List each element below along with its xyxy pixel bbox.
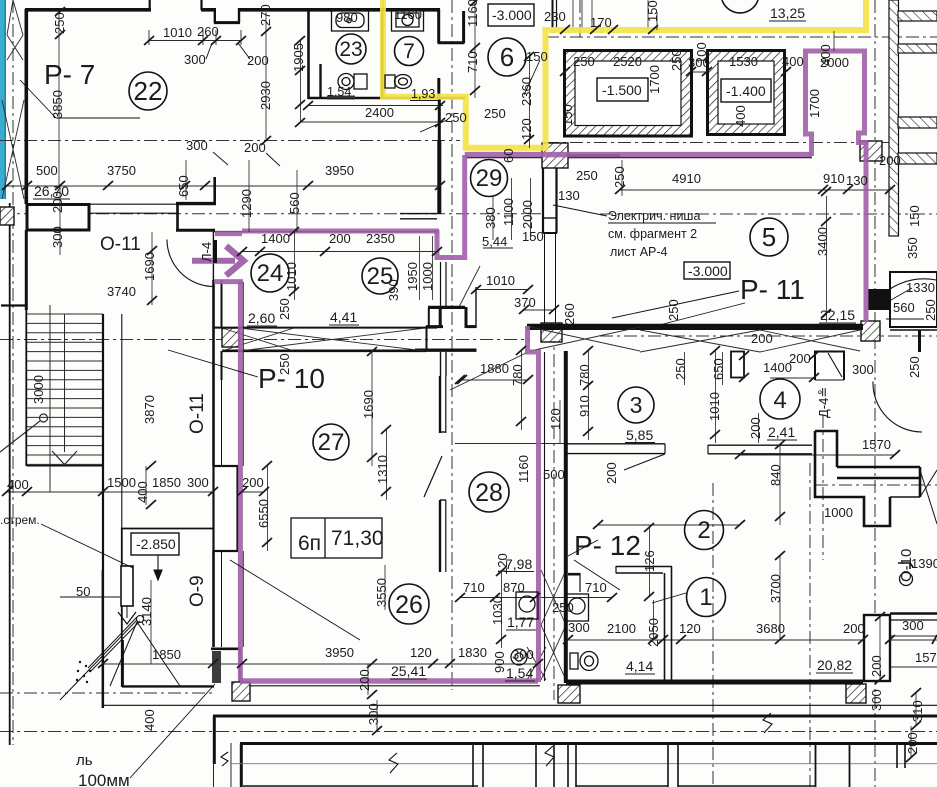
svg-text:300: 300 [902,618,924,633]
svg-text:О-11: О-11 [100,234,141,255]
svg-text:26,70: 26,70 [34,183,69,199]
svg-text:3700: 3700 [768,574,783,603]
svg-text:О-10: О-10 [898,549,915,582]
svg-text:200: 200 [247,53,269,68]
svg-text:25: 25 [367,263,394,290]
svg-text:2000: 2000 [520,200,535,229]
svg-text:1500: 1500 [107,475,136,490]
svg-text:100: 100 [694,42,709,64]
svg-text:250: 250 [673,358,688,380]
svg-text:Электрич. ниша: Электрич. ниша [608,209,700,223]
svg-text:1290: 1290 [239,189,254,218]
svg-text:4910: 4910 [672,171,701,186]
svg-text:2930: 2930 [258,81,273,110]
leader lines [20,43,745,778]
fixtures room 23: bath [332,10,369,32]
svg-text:Р- 10: Р- 10 [258,363,325,394]
fixtures room 7: sink [392,10,424,32]
svg-text:150: 150 [560,104,575,126]
svg-text:Р- 12: Р- 12 [574,530,641,561]
svg-text:300: 300 [50,226,65,248]
svg-text:4,14: 4,14 [626,658,653,674]
svg-text:350: 350 [905,237,920,259]
svg-text:5,44: 5,44 [482,234,507,249]
svg-text:870: 870 [503,580,525,595]
niche walls right of room 29 [466,156,812,681]
svg-text:Р- 7: Р- 7 [44,59,95,90]
svg-text:400: 400 [142,709,157,731]
svg-text:120: 120 [410,645,432,660]
svg-text:150: 150 [522,229,544,244]
svg-text:29: 29 [476,165,503,192]
svg-text:300: 300 [869,689,884,711]
svg-text:840: 840 [768,464,783,486]
svg-text:2520: 2520 [613,54,642,69]
svg-text:310: 310 [910,700,925,722]
door room 3 [624,454,665,470]
dark pier left bottom [212,651,221,683]
svg-text:1330: 1330 [906,280,935,295]
svg-text:200: 200 [905,732,920,754]
svg-text:780: 780 [510,364,525,386]
svg-text:71,30: 71,30 [331,527,384,550]
left lower room (ladder room) walls [103,528,213,708]
svg-text:23: 23 [339,38,362,61]
svg-text:1570: 1570 [862,437,891,452]
svg-text:200: 200 [357,669,372,691]
pit -1.500 [565,51,692,137]
svg-text:2050: 2050 [646,618,661,647]
svg-text:250: 250 [277,298,292,320]
svg-text:400: 400 [135,481,150,503]
svg-text:200: 200 [879,153,901,168]
svg-text:1690: 1690 [361,390,376,419]
svg-text:710: 710 [463,580,485,595]
svg-text:5,85: 5,85 [626,427,653,443]
svg-text:3550: 3550 [374,578,389,607]
svg-text:710: 710 [465,51,480,73]
svg-text:1030: 1030 [490,596,505,625]
room number circles [129,0,800,624]
svg-text:980: 980 [336,10,358,25]
О-11 window pier left (x213-240) [214,351,238,647]
svg-text:1400: 1400 [261,231,290,246]
svg-text:710: 710 [585,580,607,595]
О-11 niche walls near entrance [90,177,540,686]
room 23 left wall [307,10,310,99]
svg-text:1690: 1690 [142,252,157,281]
bottom-right pier white [864,615,890,681]
svg-text:27: 27 [318,429,345,456]
svg-text:-3.000: -3.000 [688,263,728,279]
svg-text:900: 900 [492,651,507,673]
pit -1.400 [708,51,785,135]
svg-text:1: 1 [699,584,712,611]
svg-text:400: 400 [7,477,29,492]
svg-text:7: 7 [403,40,415,63]
svg-text:500: 500 [36,163,58,178]
toilet niche in 23 [319,64,321,97]
svg-text:250: 250 [573,54,595,69]
door arcs [167,240,936,471]
big horizontal [465,152,812,158]
svg-text:1000: 1000 [420,262,435,291]
svg-text:4: 4 [773,387,786,414]
svg-text:560: 560 [287,192,302,214]
wall right of room 7 [437,9,440,44]
svg-text:1830: 1830 [458,645,487,660]
svg-text:1400: 1400 [763,360,792,375]
svg-text:120: 120 [519,118,534,140]
svg-text:170: 170 [590,15,612,30]
door top right room5 [872,279,936,307]
apartment area box 6п 71,30 [291,518,384,558]
svg-text:250: 250 [484,106,506,121]
svg-text:1010: 1010 [707,392,722,421]
door О-10 bottom right [873,382,922,433]
svg-text:200: 200 [789,351,811,366]
svg-text:лист АР-4: лист АР-4 [610,245,668,259]
svg-text:22: 22 [134,76,163,106]
svg-text:6: 6 [500,42,514,72]
svg-text:.стрем.: .стрем. [0,513,40,527]
svg-text:1010: 1010 [284,262,299,291]
svg-text:1,54: 1,54 [327,85,351,99]
corridor center walls x 437-476 [400,140,446,307]
svg-text:1310: 1310 [375,455,390,484]
svg-text:130: 130 [558,188,580,203]
svg-text:910: 910 [823,171,845,186]
svg-text:150: 150 [907,205,922,227]
svg-text:200: 200 [843,621,865,636]
svg-text:Д-4≗: Д-4≗ [816,387,831,418]
svg-text:1000: 1000 [824,505,853,520]
rooms 3/4 partition walls [566,351,844,683]
svg-text:3400: 3400 [815,227,830,256]
toilet room 23 [338,74,367,90]
left pier at О-11 [1,203,122,745]
svg-text:200: 200 [329,231,351,246]
svg-text:6п: 6п [298,532,321,555]
svg-text:120: 120 [679,621,701,636]
mid main wall band y327-352 [213,280,477,380]
svg-text:200: 200 [242,475,264,490]
svg-text:1160: 1160 [465,0,480,27]
svg-text:260: 260 [562,303,577,325]
svg-text:3750: 3750 [107,163,136,178]
window X left of stairs [7,35,23,60]
svg-text:1850: 1850 [152,475,181,490]
bath area bottom fixtures [511,563,913,671]
svg-text:1,54: 1,54 [506,665,533,681]
door 24 entrance [167,240,214,287]
svg-text:500: 500 [543,467,565,482]
svg-text:1700: 1700 [807,89,822,118]
svg-text:3740: 3740 [107,284,136,299]
svg-text:230: 230 [544,9,566,24]
svg-text:2100: 2100 [607,621,636,636]
svg-text:650: 650 [711,358,726,380]
svg-text:400: 400 [733,105,748,127]
wall stubs above top yellow line [553,0,557,28]
wall 27/28 x438-446 [424,376,446,572]
svg-text:25,41: 25,41 [391,663,426,679]
svg-text:400: 400 [818,44,833,66]
svg-text:380: 380 [483,207,498,229]
svg-text:300: 300 [184,52,206,67]
svg-text:250: 250 [445,110,467,125]
svg-text:910: 910 [577,395,592,417]
svg-text:1100: 1100 [501,198,516,226]
svg-text:-1.400: -1.400 [726,83,766,99]
svg-text:2400: 2400 [365,105,394,120]
stair walk-line arrow [0,414,77,465]
svg-text:Л-4: Л-4 [199,242,214,262]
break marks [221,713,772,773]
svg-text:400: 400 [782,54,804,69]
entrance door bottom + left vertical [214,279,243,284]
svg-text:150: 150 [645,0,660,22]
svg-text:560: 560 [893,300,915,315]
ladder symbol diagonals bottom-left [60,616,180,701]
svg-text:1905: 1905 [291,43,306,72]
svg-text:300: 300 [512,647,534,662]
cyan facade stripe left [0,0,5,199]
svg-text:3870: 3870 [142,395,157,424]
black filled block right [868,289,890,310]
svg-text:250: 250 [552,600,574,615]
arrow below -2.850 [154,555,162,580]
svg-text:2350: 2350 [366,231,395,246]
bottom band structure [103,705,937,787]
svg-text:650: 650 [176,175,191,197]
svg-text:1950: 1950 [405,262,420,291]
svg-text:260: 260 [197,24,219,39]
entrance arrow [192,246,244,276]
svg-text:см. фрагмент 2: см. фрагмент 2 [608,227,697,241]
svg-text:120: 120 [548,408,563,430]
toilet room 7 [385,75,412,89]
svg-text:250: 250 [576,168,598,183]
svg-text:3: 3 [630,392,643,418]
svg-text:780: 780 [577,364,592,386]
svg-text:6550: 6550 [256,499,271,528]
svg-text:20,82: 20,82 [817,657,852,673]
svg-text:3140: 3140 [139,597,154,626]
svg-text:3950: 3950 [325,163,354,178]
svg-text:200: 200 [244,140,266,155]
svg-text:300: 300 [187,475,209,490]
svg-text:13,25: 13,25 [770,5,805,21]
svg-text:-1.500: -1.500 [602,82,642,98]
svg-text:126: 126 [642,550,657,572]
left outer wall [24,9,28,204]
svg-text:3000: 3000 [31,375,46,404]
partition 23/7 (under yellow) [381,10,383,98]
svg-text:300: 300 [852,362,874,377]
room 1 / bath walls [568,566,672,681]
svg-text:Р- 11: Р- 11 [740,274,805,305]
svg-text:150: 150 [526,49,548,64]
stairwell treads [27,305,103,492]
svg-text:1850: 1850 [152,647,181,662]
svg-text:3950: 3950 [325,645,354,660]
svg-text:250: 250 [666,299,681,321]
bottom main wall [122,640,863,687]
svg-text:22,15: 22,15 [820,307,855,323]
svg-text:250: 250 [52,12,67,34]
big room labels [44,59,915,607]
svg-text:250: 250 [669,49,684,71]
svg-text:200: 200 [748,417,763,439]
svg-text:1700: 1700 [647,65,662,94]
svg-text:-2.850: -2.850 [136,536,176,552]
svg-text:200: 200 [604,462,619,484]
lintel X crosses [2,0,860,680]
svg-text:24: 24 [257,260,284,287]
svg-text:300: 300 [366,703,381,725]
svg-text:60: 60 [501,149,516,163]
svg-text:4,41: 4,41 [330,309,357,325]
svg-text:130: 130 [846,173,868,188]
svg-text:2,60: 2,60 [248,310,275,326]
svg-text:157: 157 [915,650,937,665]
svg-text:250: 250 [907,356,922,378]
svg-text:ль: ль [76,752,93,769]
hatch section blocks [0,207,14,225]
svg-text:1010: 1010 [163,25,192,40]
underlined area labels [33,5,856,681]
svg-text:370: 370 [514,295,536,310]
svg-text:О-9: О-9 [187,575,208,607]
right main wall y324-331 [527,324,937,352]
svg-text:5: 5 [762,222,776,252]
svg-text:200: 200 [751,331,773,346]
svg-text:2360: 2360 [519,77,534,106]
svg-text:1,77: 1,77 [507,614,534,630]
svg-text:26: 26 [395,591,423,619]
svg-text:1160: 1160 [516,455,531,483]
svg-text:2,41: 2,41 [768,424,795,440]
svg-text:-3.000: -3.000 [492,7,532,23]
svg-text:1,93: 1,93 [411,87,435,101]
svg-text:250: 250 [923,299,937,321]
svg-text:100мм: 100мм [78,771,130,787]
svg-text:28: 28 [475,479,503,507]
svg-text:1880: 1880 [480,361,509,376]
svg-text:250: 250 [612,166,627,188]
bottom wall of 23/7 [308,97,465,100]
svg-text:2: 2 [697,517,710,544]
note text [0,205,716,787]
right edge hatched walls [884,0,937,327]
svg-text:О-11: О-11 [187,393,208,434]
elevator/shaft plus-shaped wall right bottom [815,431,937,526]
svg-text:300: 300 [568,620,590,635]
svg-text:7,98: 7,98 [505,556,532,572]
svg-text:1530: 1530 [729,54,758,69]
elevation boxed labels [131,4,771,555]
svg-text:3680: 3680 [756,621,785,636]
svg-text:1160: 1160 [394,7,422,22]
svg-text:200: 200 [869,655,884,677]
svg-text:270: 270 [258,4,273,26]
top outer wall [25,0,465,204]
svg-text:1010: 1010 [486,273,515,288]
svg-text:300: 300 [186,138,208,153]
entry top segment [215,231,242,236]
